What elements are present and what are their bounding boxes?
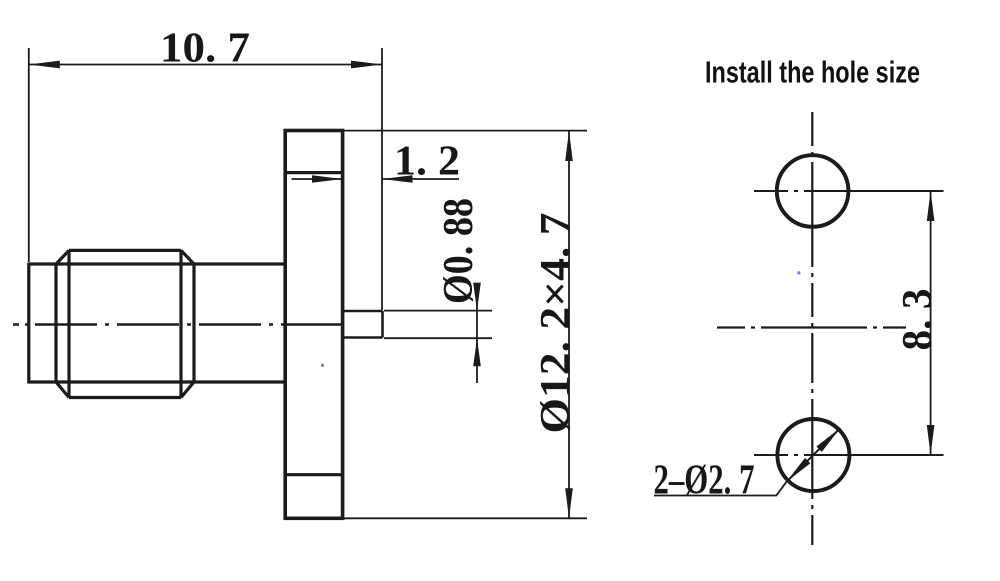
dimension 12.2x4.7 line: [568, 131, 570, 518]
centerline left view: [13, 323, 345, 325]
dimension 10.7 line: [29, 64, 382, 66]
dimension 1.2 line: [292, 178, 460, 180]
dimension 10.7 arrows: [29, 61, 60, 69]
dimension 0.88 line: [476, 300, 478, 383]
flange outline: [285, 131, 342, 519]
dimension 1.2 arrows: [312, 175, 343, 183]
dimension 12.2x4.7 arrows: [565, 131, 573, 161]
svg-text:Install the hole size: Install the hole size: [705, 55, 920, 90]
dimension 12.2x4.7 extension lines: [344, 131, 587, 519]
dimension 10.7 extension lines: [29, 48, 382, 310]
svg-text:2–Ø2. 7: 2–Ø2. 7: [654, 458, 755, 504]
left end cylinder: [29, 263, 56, 384]
middle horizontal centerline: [717, 326, 906, 328]
svg-text:1. 2: 1. 2: [394, 139, 460, 185]
top hole horizontal centerline: [754, 190, 944, 192]
nut/barrel junction: [192, 264, 195, 382]
hole diameter line: [787, 428, 841, 482]
hex nut outline: [69, 250, 181, 397]
svg-text:Ø0. 88: Ø0. 88: [436, 198, 482, 304]
svg-text:10. 7: 10. 7: [160, 26, 250, 72]
flange division lines: [285, 173, 342, 475]
right view vertical centerline: [811, 112, 813, 545]
contact pin: [344, 311, 383, 338]
hole diameter arrows: [816, 428, 840, 452]
speck left view: [321, 364, 324, 367]
hex nut chamfers: [56, 250, 194, 397]
dimension 0.88 arrows: [473, 283, 481, 311]
dimension 8.3 line: [930, 191, 932, 455]
dimension 8.3 arrows: [927, 191, 935, 221]
waist lines (cylinder/barrel top and bottom): [29, 264, 284, 382]
bottom hole horizontal centerline: [754, 454, 944, 456]
bottom hole circle: [777, 419, 849, 491]
svg-text:Ø12. 2×4. 7: Ø12. 2×4. 7: [533, 213, 579, 434]
dimension 0.88 extension lines: [384, 311, 492, 339]
speck right view: [797, 271, 800, 274]
leader line for 2-2.7: [654, 482, 787, 496]
top hole circle: [777, 155, 849, 227]
svg-text:8. 3: 8. 3: [895, 289, 941, 351]
